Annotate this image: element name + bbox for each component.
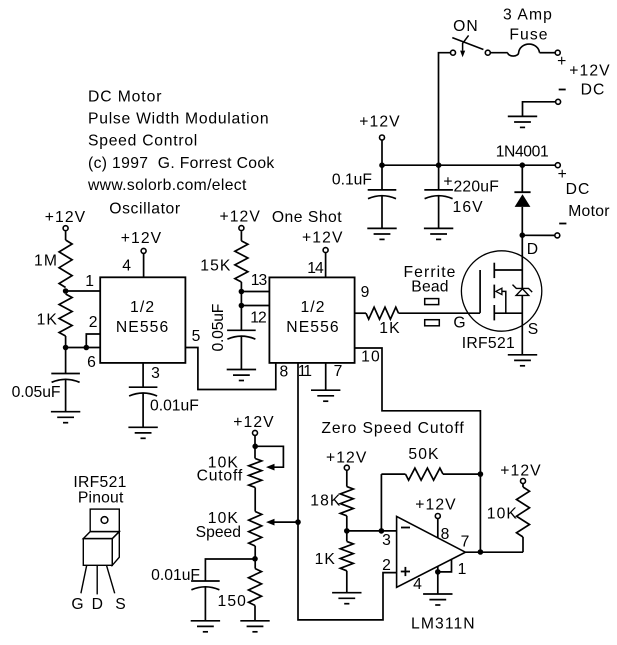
svg-text:G: G [453,315,466,332]
wire speed wiper to pin 11 line [274,521,298,523]
wire 18K to junction [346,516,348,542]
node output junction [478,549,484,555]
label 1M [34,253,58,270]
svg-text:D: D [92,596,104,613]
pin number 6 [87,354,97,371]
ground below 0.1uF [367,228,396,239]
wire 1K to ground [346,571,348,593]
title text line 4 [88,155,275,172]
label + (motor) [558,166,568,183]
svg-text:+: + [443,174,453,191]
label 0.1uF [332,172,372,189]
svg-text:4: 4 [122,258,132,275]
wire feedback leg [380,474,382,531]
resistor 1K gate [366,307,399,319]
node output top junction [478,471,484,477]
svg-text:150: 150 [218,593,247,610]
svg-text:Motor: Motor [568,203,610,220]
wire +12V to 1M [65,231,67,240]
label minus input [401,527,410,529]
svg-text:+12V: +12V [45,209,86,226]
wire 1K to junction [65,336,67,348]
wire pin 2 stub [86,334,100,348]
svg-text:+12V: +12V [569,63,610,80]
label 0.01uF oscillator [150,398,199,415]
svg-text:8: 8 [441,526,451,543]
gate bar [479,270,481,313]
wire speed to 150 [254,546,256,569]
svg-text:8: 8 [279,364,289,381]
wire junction to capacitor [65,348,67,374]
svg-text:18K: 18K [310,493,341,510]
wire switch to rail [439,53,451,166]
resistor 50K [406,468,444,480]
svg-text:220uF: 220uF [454,179,499,196]
switch S1 blade [452,38,483,50]
power terminal +12V (pin14) [323,248,328,253]
svg-text:Cutoff: Cutoff [197,468,243,485]
wire rail to 0.1uF [381,165,383,190]
svg-text:4: 4 [413,576,423,593]
resistor 1K oscillator [59,294,72,336]
svg-text:Speed: Speed [196,524,241,541]
label DC (motor) [566,181,591,198]
title text line 2 [88,111,269,128]
pin number 13 [251,272,268,289]
label 1N4001 [496,144,549,161]
wire pin 14 [325,253,327,278]
label Motor [568,203,610,220]
wire 50K left lead [381,473,405,475]
pin number 1 [85,273,95,290]
label 1K (comparator) [315,551,336,568]
wire rail to diode [521,165,523,192]
wire source to ground [521,295,523,354]
wire pin 5 to pin 8 [185,348,275,390]
power terminal +12V (top rail) [380,135,385,140]
wire 220uF to ground [438,196,440,229]
ground below 0.05uF [51,412,80,423]
wire - terminal to ground [523,102,556,117]
pin number 14 [307,260,324,277]
wire output [465,551,523,553]
svg-text:1: 1 [85,273,95,290]
wire rail to 220uF [438,165,440,190]
label 16V [453,199,484,216]
svg-text:Fuse: Fuse [509,27,548,44]
svg-text:1N4001: 1N4001 [496,144,549,161]
svg-text:15K: 15K [200,258,231,275]
svg-text:One Shot: One Shot [272,209,342,226]
label 3 Amp [503,7,553,24]
pin number 11 [298,363,312,380]
label - (motor) [559,223,566,225]
svg-text:1/2: 1/2 [300,299,325,316]
op-amp U2 LM311N triangle [397,516,466,587]
power +12V label (18K) [326,450,367,467]
package leg G [81,565,87,593]
potentiometer 10K Cutoff [249,459,262,488]
svg-text:Oscillator: Oscillator [109,201,180,218]
svg-text:1: 1 [458,561,468,578]
power terminal +12V (1M) [63,226,68,231]
switch S1 left contact [451,50,456,55]
svg-text:0.01uF: 0.01uF [151,567,200,584]
package body top face [83,532,119,539]
power terminal +12V (pots) [253,430,258,435]
label 18K [310,493,341,510]
node pin1 junction [63,288,69,294]
svg-text:NE556: NE556 [116,319,169,336]
label G (pinout) [71,596,84,613]
power terminal +12V (pin4) [141,248,146,253]
label Bead [411,279,448,296]
svg-text:0.05uF: 0.05uF [210,304,227,352]
capacitor 220uF electrolytic [424,190,453,199]
label +12V supply [569,63,610,80]
svg-text:IRF521: IRF521 [462,335,515,352]
package leg S [107,565,115,593]
svg-text:9: 9 [361,284,371,301]
wire output to feedback [479,474,481,552]
channel segment top [493,263,495,278]
power terminal +12V (pin8) [435,514,440,519]
op ic U1b NE556 one shot box [269,277,354,363]
svg-text:2: 2 [382,557,392,574]
svg-text:10: 10 [361,349,381,366]
resistor 1M [59,240,72,288]
svg-text:0.01uF: 0.01uF [150,398,199,415]
wire pin 1 [438,559,452,572]
svg-text:+: + [557,53,567,70]
svg-text:12: 12 [250,310,266,327]
svg-text:+12V: +12V [219,209,260,226]
svg-text:(c) 1997 G. Forrest Cook: (c) 1997 G. Forrest Cook [88,155,275,172]
node pin2 junction [84,345,90,351]
substrate arrow [496,288,506,313]
svg-text:2: 2 [89,314,99,331]
svg-text:+12V: +12V [359,114,400,131]
label 1K gate [379,320,400,337]
label Fuse [509,27,548,44]
transistor Q1 body circle [461,251,541,331]
wire +12V to rail [381,140,383,165]
ground below comparator 1K [332,593,361,604]
pin number 8 (lm311) [441,526,451,543]
package tab [90,509,119,531]
wire 1M-1K junction to pin 1 [66,290,101,292]
pin number 3 (lm311) [382,532,392,549]
wire pin 4 [143,253,145,277]
svg-text:3 Amp: 3 Amp [503,7,553,24]
channel segment middle [493,285,495,299]
label G [453,315,466,332]
label 10K (output) [487,506,518,523]
ground below 220uF [424,228,453,239]
package body front [83,539,112,566]
svg-text:Pulse Width Modulation: Pulse Width Modulation [88,111,269,128]
svg-text:D: D [527,241,539,258]
wire +12V to cutoff pot [254,435,256,458]
switch ON arrow [460,35,469,57]
power terminal +12V (15K) [239,226,244,231]
wire pin 13 [241,291,269,293]
diode D1 1N4001 [514,192,530,207]
ferrite bead lower [425,320,440,326]
terminal DC motor - [555,233,560,238]
svg-text:+12V: +12V [233,414,274,431]
fuse F1 3 Amp [508,44,540,56]
capacitor 0.1uF [368,190,397,199]
wire capacitor to ground [65,379,67,411]
svg-text:NE556: NE556 [286,319,339,336]
power +12V label (pin8) [415,497,456,514]
resistor 10K output [517,487,530,537]
ground below 150 [240,621,269,632]
svg-text:6: 6 [87,354,97,371]
label Cutoff [197,468,243,485]
pin number 4 [122,258,132,275]
svg-text:www.solorb.com/elect: www.solorb.com/elect [87,177,247,194]
potentiometer 10K Speed [249,512,262,547]
package leg D [96,565,98,594]
label 10K (cutoff) [208,455,239,472]
wire 0.01uF to ground [142,393,144,427]
svg-text:+12V: +12V [302,230,343,247]
wire pin 10 to comparator output [355,348,481,474]
power +12V label (15K) [219,209,260,226]
svg-text:1K: 1K [379,320,400,337]
terminal -12V DC input [556,99,561,104]
ground below LM311 [423,594,452,605]
package hole [101,517,108,524]
package body right face [112,532,119,566]
wire 1K to gate [399,312,481,314]
svg-text:Speed Control: Speed Control [88,133,198,150]
pin number 7 (lm311) [461,534,471,551]
svg-text:1K: 1K [315,551,336,568]
svg-text:1K: 1K [37,312,58,329]
svg-text:50K: 50K [408,446,439,463]
wire main 12V rail [382,164,555,166]
label 10K (speed) [208,510,239,527]
wire motor minus [522,234,555,236]
svg-text:DC: DC [581,82,606,99]
ferrite bead upper [425,299,439,305]
label Zero Speed Cutoff [321,420,464,437]
pin number 5 [192,328,202,345]
label ON [453,18,479,35]
svg-text:S: S [528,321,540,338]
ground below pin 7 [311,390,340,401]
wire 150 to ground [254,605,256,620]
node cutoff top [252,444,258,450]
label One Shot [272,209,342,226]
svg-text:3: 3 [382,532,392,549]
wire 0.05uF to ground [240,336,242,369]
capacitor 0.05uF oscillator [51,374,80,383]
svg-text:S: S [115,596,127,613]
label 0.05uF one shot rotated [210,304,227,352]
svg-text:Pinout: Pinout [78,490,124,507]
svg-text:1/2: 1/2 [130,299,155,316]
node speed wiper junction [295,519,301,525]
ground supply minus [508,116,537,127]
wire 0.01uF to ground [204,587,206,621]
wire +12V to 10K [522,484,524,488]
svg-text:14: 14 [307,260,324,277]
terminal +12V DC input [555,50,560,55]
node rail at 220uF [436,162,442,168]
label 220uF [454,179,499,196]
label LM311N [411,616,476,633]
node pin13 junction [239,289,245,295]
title text line 3 [88,133,198,150]
label 0.05uF oscillator [12,384,61,401]
wire pin 12 [241,305,269,307]
wire pin 3 [142,363,144,387]
resistor 1K (comparator) [340,541,353,570]
wire pin 11 to wiper and plus input [298,363,397,620]
svg-text:3: 3 [151,365,161,382]
ground below 0.01uF [128,427,157,438]
node speed bottom junction [252,556,258,562]
speed wiper arrow [266,519,275,526]
title text line 1 [88,88,162,105]
label Speed [196,524,241,541]
pin number 4 (lm311) [413,576,423,593]
wire cutoff wiper loop [255,446,283,467]
wire junction to pin 3 [347,530,397,532]
label Ferrite [403,264,456,281]
wire diode to motor - node [521,207,523,235]
svg-text:DC Motor: DC Motor [88,88,162,105]
svg-text:+12V: +12V [415,497,456,514]
power +12V label (10K out) [500,463,541,480]
wire cutoff to speed [254,488,256,512]
label - (supply) [559,89,566,91]
pin number 2 (lm311) [382,557,392,574]
node pin1 pin4 junction [435,569,441,575]
wire 50K right lead [443,473,480,475]
svg-text:1M: 1M [34,253,58,270]
svg-text:G: G [71,596,84,613]
wire pin 7 to ground [325,363,327,390]
label Pinout [78,490,124,507]
body diode zener [513,285,533,296]
label 0.01uF (speed) [151,567,200,584]
label 150 [218,593,247,610]
svg-text:+12V: +12V [326,450,367,467]
terminal DC motor + [555,163,560,168]
label 1K oscillator [37,312,58,329]
svg-text:IRF521: IRF521 [73,474,126,491]
wire 0.1uF to ground [381,196,383,229]
label S (pinout) [115,596,127,613]
wire pin 4 to ground [437,566,439,594]
wire pin 9 to 1K [355,312,366,314]
node pin6 junction [63,345,69,351]
label S [528,321,540,338]
svg-text:0.05uF: 0.05uF [12,384,61,401]
label 15K [200,258,231,275]
power +12V label (pots) [233,414,274,431]
resistor 150 [249,569,262,606]
svg-text:+12V: +12V [121,230,162,247]
ground below 0.01uF speed [191,621,220,632]
svg-text:10K: 10K [487,506,518,523]
pin number 9 [361,284,371,301]
svg-text:ON: ON [453,18,479,35]
pin number 3 [151,365,161,382]
svg-text:Zero Speed Cutoff: Zero Speed Cutoff [321,420,464,437]
wire 15K to junctions [240,282,242,330]
wire junction to 0.01uF [205,559,255,581]
svg-text:LM311N: LM311N [411,616,476,633]
ground below one shot 0.05uF [227,370,256,381]
power +12V label (pin14) [302,230,343,247]
svg-text:5: 5 [192,328,202,345]
power +12V label (1M) [45,209,86,226]
wire 10K to output [522,537,524,552]
label DC supply [581,82,606,99]
ground below source [508,355,537,366]
svg-text:Bead: Bead [411,279,448,296]
wire +12V to 18K [346,470,348,486]
wire switch to fuse [490,52,508,54]
wire +12V to 15K [240,231,242,241]
svg-text:7: 7 [461,534,471,551]
svg-text:DC: DC [566,181,591,198]
node rail at 0.1uF [379,162,385,168]
label IRF521 (mosfet) [462,335,515,352]
power terminal +12V (10K out) [521,479,526,484]
svg-text:0.1uF: 0.1uF [332,172,372,189]
node 18K 1K junction [344,528,350,534]
pin number 10 [361,349,381,366]
power +12V label (top rail) [359,114,400,131]
label D [527,241,539,258]
wire pin 8 [437,519,439,538]
wire drain rail [521,235,523,288]
label plus input [401,567,410,576]
resistor 18K [340,487,353,516]
label IRF521 (pinout) [73,474,126,491]
svg-text:11: 11 [298,363,312,380]
power +12V label (pin4) [121,230,162,247]
svg-text:13: 13 [251,272,268,289]
resistor 15K [235,241,248,282]
wire junction to pin 6 [66,347,101,349]
power terminal +12V (18K) [344,465,349,470]
label Oscillator [109,201,180,218]
node feedback junction [379,528,385,534]
op ic U1a NE556 oscillator box [100,277,185,363]
node pin12 junction [239,303,245,309]
switch S1 right contact [485,50,490,55]
label + (supply) [557,53,567,70]
pin number 1 (lm311) [458,561,468,578]
node motor minus [520,232,526,238]
pin number 12 [250,310,266,327]
pin number 2 [89,314,99,331]
label 50K [408,446,439,463]
capacitor 0.01uF (speed) [191,581,220,590]
svg-text:+12V: +12V [500,463,541,480]
pin number 7 [334,363,344,380]
pin number 8 [279,364,289,381]
svg-text:16V: 16V [453,199,484,216]
